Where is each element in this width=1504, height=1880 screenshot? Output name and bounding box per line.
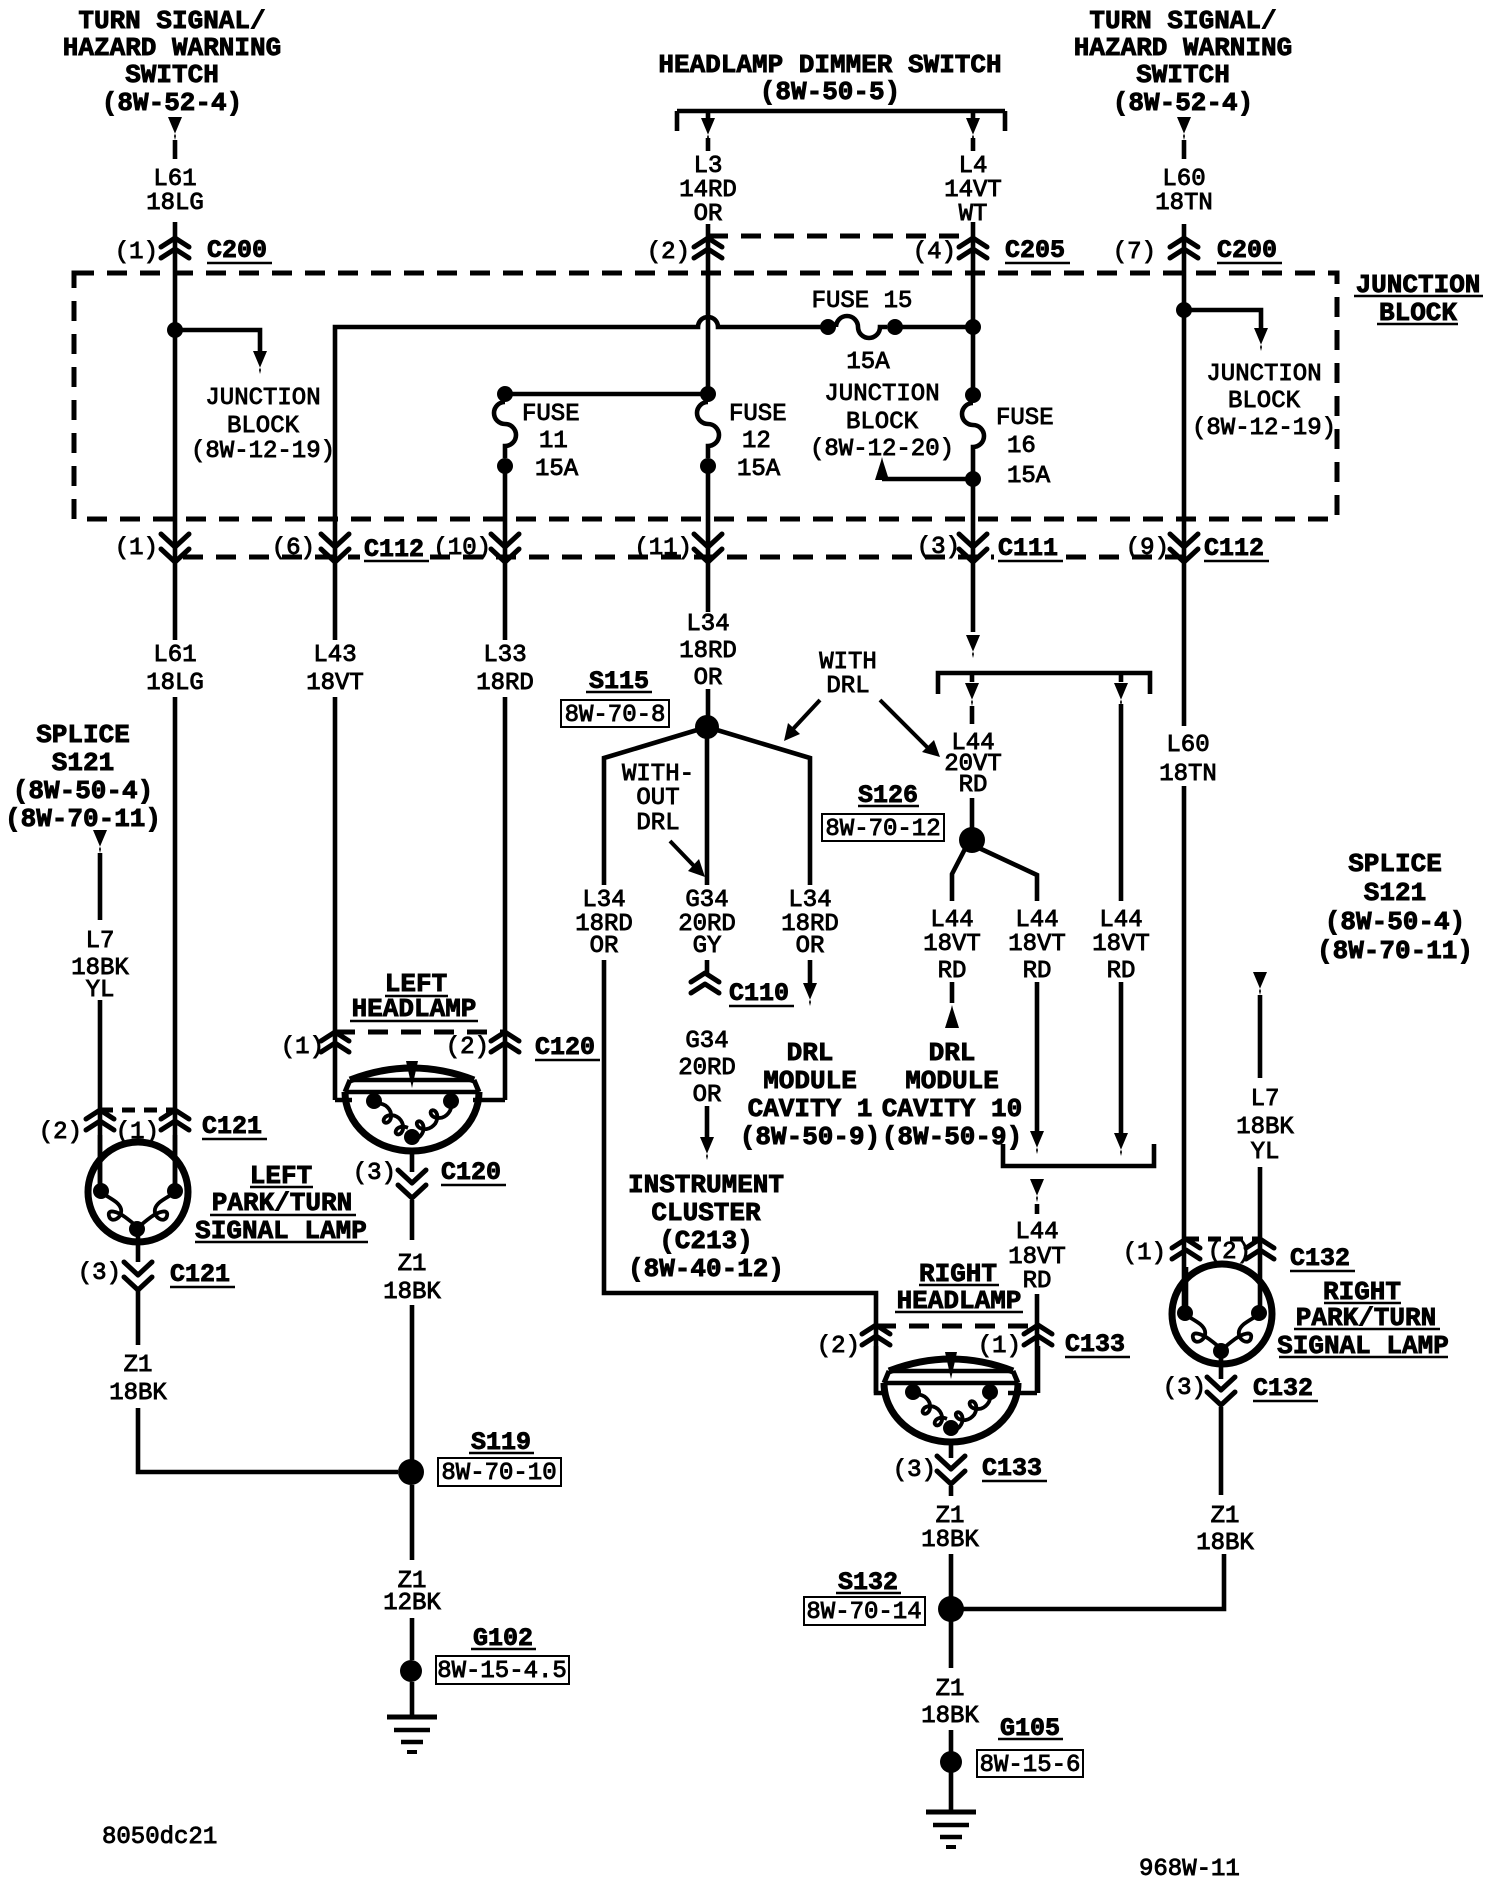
svg-text:C112: C112 <box>1204 534 1264 563</box>
svg-text:DRL: DRL <box>929 1038 976 1068</box>
svg-text:OR: OR <box>590 933 619 960</box>
svg-text:(8W-52-4): (8W-52-4) <box>102 88 242 118</box>
svg-text:L33: L33 <box>483 642 526 669</box>
svg-text:PARK/TURN: PARK/TURN <box>212 1188 352 1218</box>
svg-text:18VT: 18VT <box>1092 931 1150 958</box>
svg-text:WITH-: WITH- <box>622 761 694 788</box>
svg-text:C120: C120 <box>535 1033 595 1062</box>
svg-text:HAZARD WARNING: HAZARD WARNING <box>63 33 281 63</box>
svg-text:(2): (2) <box>446 1034 489 1061</box>
svg-text:C120: C120 <box>441 1158 501 1187</box>
svg-text:(8W-50-9): (8W-50-9) <box>882 1122 1022 1152</box>
svg-text:(1): (1) <box>281 1034 324 1061</box>
svg-text:L34: L34 <box>686 611 729 638</box>
svg-text:OR: OR <box>796 933 825 960</box>
svg-text:18RD: 18RD <box>679 638 737 665</box>
svg-text:RD: RD <box>1023 1268 1052 1295</box>
svg-text:L61: L61 <box>153 166 196 193</box>
svg-text:(8W-50-5): (8W-50-5) <box>760 77 900 107</box>
svg-text:C132: C132 <box>1290 1244 1350 1273</box>
svg-text:18TN: 18TN <box>1159 761 1217 788</box>
svg-text:18TN: 18TN <box>1155 190 1213 217</box>
svg-text:CLUSTER: CLUSTER <box>651 1198 761 1228</box>
svg-text:L34: L34 <box>788 887 831 914</box>
svg-text:12: 12 <box>742 428 771 455</box>
svg-text:INSTRUMENT: INSTRUMENT <box>628 1170 784 1200</box>
svg-text:PARK/TURN: PARK/TURN <box>1296 1303 1436 1333</box>
svg-text:LEFT: LEFT <box>250 1161 312 1191</box>
svg-text:15A: 15A <box>737 456 781 483</box>
svg-text:S121: S121 <box>1364 878 1426 908</box>
svg-text:C133: C133 <box>982 1454 1042 1483</box>
svg-text:(8W-40-12): (8W-40-12) <box>628 1254 784 1284</box>
svg-text:(1): (1) <box>978 1333 1021 1360</box>
svg-text:(10): (10) <box>433 535 491 562</box>
svg-text:8W-15-6: 8W-15-6 <box>980 1752 1081 1779</box>
svg-text:Z1: Z1 <box>1211 1503 1240 1530</box>
svg-text:C112: C112 <box>364 535 424 564</box>
svg-text:15A: 15A <box>846 349 890 376</box>
svg-text:L43: L43 <box>313 642 356 669</box>
svg-text:HEADLAMP: HEADLAMP <box>897 1286 1022 1316</box>
svg-text:(8W-50-9): (8W-50-9) <box>740 1122 880 1152</box>
svg-text:SWITCH: SWITCH <box>125 60 219 90</box>
svg-text:Z1: Z1 <box>936 1676 965 1703</box>
svg-text:RIGHT: RIGHT <box>919 1259 997 1289</box>
svg-text:L61: L61 <box>153 642 196 669</box>
svg-text:FUSE: FUSE <box>996 405 1054 432</box>
svg-text:SPLICE: SPLICE <box>1348 849 1442 879</box>
svg-text:18BK: 18BK <box>921 1703 979 1730</box>
svg-text:S126: S126 <box>858 781 918 810</box>
svg-text:20RD: 20RD <box>678 1055 736 1082</box>
svg-text:8W-70-14: 8W-70-14 <box>806 1599 921 1626</box>
svg-text:CAVITY 1: CAVITY 1 <box>748 1094 873 1124</box>
svg-text:S119: S119 <box>471 1428 531 1457</box>
svg-text:(1): (1) <box>116 1119 159 1146</box>
svg-text:Z1: Z1 <box>936 1503 965 1530</box>
svg-text:(C213): (C213) <box>659 1226 753 1256</box>
svg-text:18VT: 18VT <box>306 670 364 697</box>
svg-text:L60: L60 <box>1162 166 1205 193</box>
svg-text:18BK: 18BK <box>921 1527 979 1554</box>
svg-text:8W-70-10: 8W-70-10 <box>441 1460 556 1487</box>
svg-text:18LG: 18LG <box>146 190 204 217</box>
svg-text:18BK: 18BK <box>1236 1114 1294 1141</box>
svg-text:(8W-52-4): (8W-52-4) <box>1113 88 1253 118</box>
svg-text:RD: RD <box>1023 958 1052 985</box>
svg-text:OR: OR <box>693 1082 722 1109</box>
svg-text:14RD: 14RD <box>679 177 737 204</box>
svg-text:BLOCK: BLOCK <box>846 409 919 436</box>
svg-text:L7: L7 <box>86 928 115 955</box>
svg-text:OR: OR <box>694 201 723 228</box>
svg-text:RD: RD <box>959 772 988 799</box>
svg-text:(2): (2) <box>817 1333 860 1360</box>
svg-text:SWITCH: SWITCH <box>1136 60 1230 90</box>
svg-text:L44: L44 <box>1015 1219 1058 1246</box>
svg-text:(3): (3) <box>353 1160 396 1187</box>
svg-text:8W-15-4.5: 8W-15-4.5 <box>437 1658 567 1685</box>
svg-text:RD: RD <box>1107 958 1136 985</box>
svg-text:S121: S121 <box>52 748 114 778</box>
svg-text:18BK: 18BK <box>383 1279 441 1306</box>
svg-text:SPLICE: SPLICE <box>36 720 130 750</box>
svg-text:(3): (3) <box>893 1457 936 1484</box>
svg-text:(3): (3) <box>1163 1375 1206 1402</box>
svg-text:18LG: 18LG <box>146 670 204 697</box>
svg-text:GY: GY <box>693 933 722 960</box>
svg-text:15A: 15A <box>535 456 579 483</box>
svg-text:(4): (4) <box>913 239 956 266</box>
svg-text:14VT: 14VT <box>944 177 1002 204</box>
svg-text:Z1: Z1 <box>124 1352 153 1379</box>
svg-text:(8W-70-11): (8W-70-11) <box>1317 936 1473 966</box>
svg-text:DRL: DRL <box>787 1038 834 1068</box>
svg-text:TURN SIGNAL/: TURN SIGNAL/ <box>78 6 265 36</box>
svg-text:968W-11: 968W-11 <box>1139 1856 1240 1880</box>
svg-text:MODULE: MODULE <box>763 1066 857 1096</box>
svg-text:18BK: 18BK <box>1196 1530 1254 1557</box>
svg-text:(1): (1) <box>1123 1240 1166 1267</box>
svg-text:12BK: 12BK <box>383 1590 441 1617</box>
svg-text:(8W-50-4): (8W-50-4) <box>1325 907 1465 937</box>
svg-text:JUNCTION: JUNCTION <box>1356 270 1481 300</box>
svg-text:(2): (2) <box>39 1119 82 1146</box>
svg-text:TURN SIGNAL/: TURN SIGNAL/ <box>1089 6 1276 36</box>
svg-text:L3: L3 <box>694 153 723 180</box>
svg-text:G34: G34 <box>685 1028 728 1055</box>
svg-text:WITH: WITH <box>819 649 877 676</box>
svg-text:CAVITY 10: CAVITY 10 <box>882 1094 1022 1124</box>
svg-text:(1): (1) <box>115 239 158 266</box>
svg-text:18BK: 18BK <box>109 1380 167 1407</box>
svg-text:MODULE: MODULE <box>905 1066 999 1096</box>
svg-text:11: 11 <box>539 428 568 455</box>
svg-text:8W-70-8: 8W-70-8 <box>565 702 666 729</box>
svg-text:18VT: 18VT <box>1008 1244 1066 1271</box>
svg-text:WT: WT <box>959 201 988 228</box>
svg-text:18VT: 18VT <box>1008 931 1066 958</box>
svg-text:18VT: 18VT <box>923 931 981 958</box>
svg-text:DRL: DRL <box>636 810 679 837</box>
svg-text:DRL: DRL <box>826 673 869 700</box>
svg-text:(8W-12-19): (8W-12-19) <box>1192 415 1336 442</box>
svg-text:C205: C205 <box>1005 236 1065 265</box>
svg-text:FUSE: FUSE <box>522 401 580 428</box>
svg-text:C133: C133 <box>1065 1330 1125 1359</box>
svg-text:L7: L7 <box>1251 1086 1280 1113</box>
svg-text:YL: YL <box>86 977 115 1004</box>
svg-text:C121: C121 <box>170 1260 230 1289</box>
svg-text:HAZARD WARNING: HAZARD WARNING <box>1074 33 1292 63</box>
svg-text:(2): (2) <box>647 239 690 266</box>
svg-text:YL: YL <box>1251 1139 1280 1166</box>
svg-text:C110: C110 <box>729 979 789 1008</box>
svg-text:(1): (1) <box>115 535 158 562</box>
svg-text:JUNCTION: JUNCTION <box>824 381 939 408</box>
svg-text:L44: L44 <box>1099 907 1142 934</box>
svg-text:BLOCK: BLOCK <box>227 413 300 440</box>
svg-text:RD: RD <box>938 958 967 985</box>
svg-text:BLOCK: BLOCK <box>1228 388 1301 415</box>
svg-text:JUNCTION: JUNCTION <box>205 385 320 412</box>
svg-text:8050dc21: 8050dc21 <box>102 1824 217 1851</box>
svg-text:(8W-12-20): (8W-12-20) <box>810 436 954 463</box>
svg-text:C121: C121 <box>202 1112 262 1141</box>
svg-text:L60: L60 <box>1166 732 1209 759</box>
svg-text:L44: L44 <box>1015 907 1058 934</box>
svg-text:G102: G102 <box>473 1624 533 1653</box>
svg-text:16: 16 <box>1007 433 1036 460</box>
svg-text:L44: L44 <box>930 907 973 934</box>
svg-text:Z1: Z1 <box>398 1251 427 1278</box>
svg-text:C200: C200 <box>1217 236 1277 265</box>
svg-text:15A: 15A <box>1007 463 1051 490</box>
svg-text:(11): (11) <box>634 535 692 562</box>
svg-text:C200: C200 <box>207 236 267 265</box>
svg-text:HEADLAMP: HEADLAMP <box>352 994 477 1024</box>
svg-text:C111: C111 <box>998 534 1058 563</box>
svg-text:18RD: 18RD <box>476 670 534 697</box>
svg-text:L4: L4 <box>959 153 988 180</box>
svg-text:(6): (6) <box>272 535 315 562</box>
svg-text:BLOCK: BLOCK <box>1379 298 1457 328</box>
svg-text:G105: G105 <box>1000 1714 1060 1743</box>
svg-text:L34: L34 <box>582 887 625 914</box>
svg-text:(8W-50-4): (8W-50-4) <box>13 776 153 806</box>
svg-text:S115: S115 <box>589 667 649 696</box>
svg-text:(8W-12-19): (8W-12-19) <box>191 438 335 465</box>
svg-text:OR: OR <box>694 665 723 692</box>
svg-text:HEADLAMP DIMMER SWITCH: HEADLAMP DIMMER SWITCH <box>658 50 1001 80</box>
svg-text:(3): (3) <box>917 534 960 561</box>
svg-text:SIGNAL LAMP: SIGNAL LAMP <box>1277 1331 1449 1361</box>
svg-text:(7): (7) <box>1113 239 1156 266</box>
svg-text:FUSE 15: FUSE 15 <box>812 288 913 315</box>
svg-text:OUT: OUT <box>636 785 679 812</box>
svg-text:(3): (3) <box>78 1260 121 1287</box>
svg-text:S132: S132 <box>838 1568 898 1597</box>
svg-text:C132: C132 <box>1253 1374 1313 1403</box>
svg-text:FUSE: FUSE <box>729 401 787 428</box>
svg-text:8W-70-12: 8W-70-12 <box>825 816 940 843</box>
svg-text:JUNCTION: JUNCTION <box>1206 361 1321 388</box>
svg-text:(9): (9) <box>1126 535 1169 562</box>
svg-text:(8W-70-11): (8W-70-11) <box>5 804 161 834</box>
svg-text:SIGNAL LAMP: SIGNAL LAMP <box>195 1216 367 1246</box>
svg-text:G34: G34 <box>685 887 728 914</box>
svg-text:(2): (2) <box>1208 1239 1251 1266</box>
